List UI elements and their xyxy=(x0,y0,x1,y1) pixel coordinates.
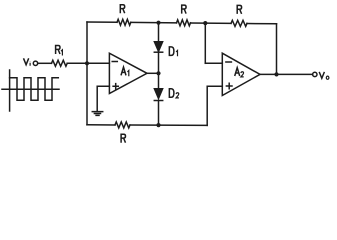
op-amp A1 xyxy=(109,53,147,93)
label D1 xyxy=(169,47,174,56)
label R top left xyxy=(120,5,124,14)
resistor R (top middle) xyxy=(177,20,191,26)
wire: summing node down to bottom rail xyxy=(86,63,88,125)
resistor R (top right) xyxy=(231,20,247,26)
wire: top rail segment 2 xyxy=(131,21,177,23)
node: A2 output / feedback xyxy=(274,72,278,76)
resistor R (top left) xyxy=(117,19,131,25)
label A1 xyxy=(121,67,126,75)
wire: top rail segment 4 xyxy=(247,23,277,25)
label Vo xyxy=(319,72,324,78)
node: top rail / A2 inverting xyxy=(203,21,207,25)
resistor R (bottom) xyxy=(115,122,130,128)
wire: A1 output xyxy=(147,72,159,74)
minus sign A1 xyxy=(112,61,117,63)
label R1 xyxy=(56,46,60,55)
plus sign A1 xyxy=(113,84,118,89)
wire: D1 cathode to A1 output node xyxy=(158,52,160,88)
wire: top rail segment 1 xyxy=(87,21,117,23)
node: top rail / D1 xyxy=(156,21,160,25)
op-amp A2 xyxy=(222,53,260,95)
terminal Vo xyxy=(313,72,317,76)
diode D2 xyxy=(154,89,162,99)
wire: D2 cathode to bottom rail xyxy=(158,101,160,126)
wire: top rail down to D1 xyxy=(158,23,160,42)
wire: bottom rail up to A2 non-inverting input xyxy=(207,86,222,125)
label R top right xyxy=(237,5,241,14)
label A2 xyxy=(235,68,240,76)
wire: left riser top-rail to summing node xyxy=(86,22,88,63)
wire: top rail segment 3 xyxy=(191,22,232,24)
wire: A2 inverting input xyxy=(205,62,222,64)
label R bottom xyxy=(121,134,125,143)
wire: right riser to output node xyxy=(276,24,278,75)
label D2 xyxy=(169,89,174,98)
node: summing junction xyxy=(85,61,89,65)
wire: A1 non-inverting input to ground xyxy=(97,86,109,111)
input square-wave symbol xyxy=(2,70,59,111)
ground xyxy=(92,112,102,116)
resistor R1 xyxy=(52,60,68,66)
wire: A2 output to Vo xyxy=(260,73,313,75)
terminal Vi xyxy=(33,61,37,65)
wire: bottom rail segment 1 xyxy=(87,124,115,126)
wire: Vi to R1 xyxy=(38,62,52,64)
minus sign A2 xyxy=(226,61,232,63)
diode D1 xyxy=(154,42,162,52)
wire: top rail down to A2 inverting input xyxy=(204,23,206,63)
label R top middle xyxy=(182,5,186,14)
node: A1 output / diode branch xyxy=(156,71,160,75)
plus sign A2 xyxy=(226,83,232,89)
wire: R1 to A1 inverting input xyxy=(67,62,109,64)
label Vi xyxy=(24,58,29,64)
node: bottom rail / D2 xyxy=(156,123,160,127)
wire: bottom rail segment 2 xyxy=(130,124,207,126)
